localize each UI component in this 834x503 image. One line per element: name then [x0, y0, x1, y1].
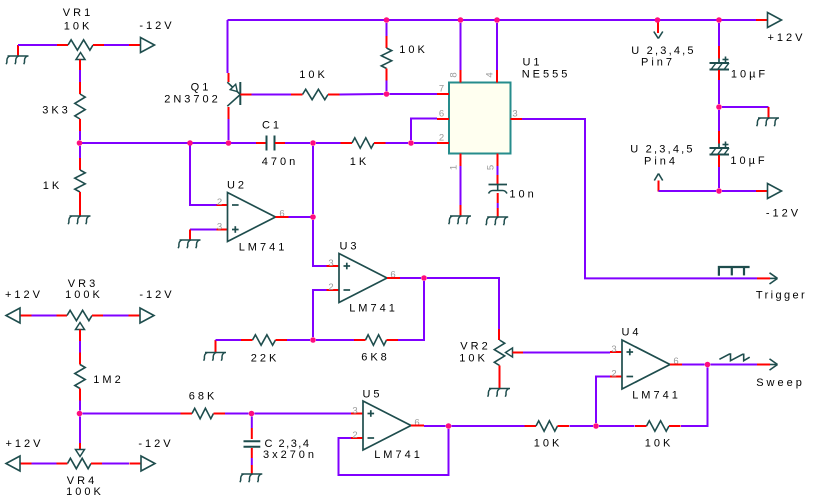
- wire 3K3 to bus: [79, 131, 81, 140]
- svg-text:U 2,3,4,5: U 2,3,4,5: [631, 45, 695, 57]
- power +12V (VR4): [6, 456, 32, 471]
- icon square wave: [719, 267, 750, 276]
- junction U2 out (313,217): [310, 214, 316, 220]
- wire 1K to ground: [79, 204, 81, 216]
- svg-text:Pin4: Pin4: [644, 156, 678, 168]
- svg-text:Pin7: Pin7: [641, 57, 675, 69]
- wire 68K to M: [225, 413, 249, 415]
- pin number U5-3: [352, 406, 360, 417]
- wire B down to U2 pin2: [190, 143, 217, 205]
- pin number 4: [485, 69, 496, 77]
- resistor 22K: [241, 335, 287, 345]
- svg-text:10K: 10K: [459, 353, 488, 365]
- pin 2 lead: [437, 142, 449, 144]
- pin number 5: [486, 162, 497, 170]
- svg-text:LM741: LM741: [239, 242, 288, 254]
- junction U4 out (707.5,364.5): [705, 362, 711, 368]
- capacitor C 10uF (bottom): [710, 142, 730, 155]
- wire U3 out: [400, 277, 421, 279]
- capacitor 10uF top lead: [718, 46, 720, 59]
- potentiometer VR1 10K: [57, 40, 104, 60]
- pin number 3: [512, 109, 520, 120]
- pin number 8: [449, 69, 460, 77]
- label 10K pullup: [399, 44, 428, 56]
- junction node C (228.5,143): [226, 140, 232, 146]
- junction top bus cap: [716, 17, 722, 23]
- label C1 value: [262, 156, 298, 168]
- label VR4: [67, 475, 97, 487]
- op-amp U3 pin3 lead: [327, 265, 340, 267]
- junction node M (251.5,413.5): [249, 411, 255, 417]
- wire 6K8 to U3out corner: [398, 281, 424, 340]
- label U3: [339, 241, 359, 253]
- svg-text:3: 3: [217, 222, 225, 233]
- power -12V (VR4): [130, 456, 156, 471]
- wire 1K to E: [386, 142, 409, 144]
- wire pin8 up: [460, 23, 462, 70]
- wire VR3 wiper red: [79, 330, 81, 342]
- capacitor 10uF2 bot lead: [718, 155, 720, 167]
- pin number U4-2: [611, 369, 619, 380]
- op-amp U3 LM741: [339, 254, 387, 303]
- junction node E (411,143): [408, 140, 414, 146]
- wire bus to 10K pullup: [386, 23, 388, 36]
- op-amp U4 pin3 lead: [610, 351, 622, 353]
- arrow U2345 pin7: [654, 22, 663, 39]
- resistor 10K (base): [291, 89, 340, 99]
- label 22K: [251, 353, 280, 365]
- label 10K base: [299, 69, 328, 81]
- resistor 1K (to ground): [75, 158, 85, 204]
- label VR4 value: [66, 486, 104, 498]
- label 1K ground: [43, 180, 62, 192]
- junction top bus 10K: [384, 17, 390, 23]
- svg-text:3: 3: [611, 344, 619, 355]
- wire C234 to ground b: [251, 465, 253, 474]
- capacitor C 10uF (top): [710, 57, 730, 70]
- label U2: [227, 180, 247, 192]
- label C1: [262, 120, 282, 132]
- wire VR2 top lead: [498, 329, 500, 340]
- label 68K: [189, 391, 218, 403]
- svg-text:U2: U2: [227, 180, 247, 192]
- pin 4 lead: [496, 70, 498, 83]
- potentiometer VR2 10K: [494, 340, 523, 377]
- wire top bus: [228, 19, 757, 21]
- label U2345 pin7: [631, 45, 695, 57]
- pin number 6: [439, 109, 447, 120]
- label +12V VR3: [5, 289, 43, 301]
- IC U1 NE555 body: [449, 83, 511, 154]
- capacitor 10n: [489, 185, 508, 194]
- svg-text:Sweep: Sweep: [756, 377, 805, 389]
- label -12V VR4: [138, 438, 173, 450]
- wire VR3 to -12V: [103, 315, 129, 317]
- pin number 1: [449, 162, 460, 170]
- wire U4 pin2 down: [596, 377, 610, 424]
- wire VR2 bottom gap: [499, 377, 501, 381]
- wire 10Ks mid: [599, 425, 635, 427]
- ground G7 (22K): [204, 353, 226, 361]
- label +12V top: [768, 32, 806, 44]
- wire A down: [79, 146, 81, 158]
- pin number U2-6: [279, 209, 287, 220]
- op-amp U2 pin2 lead: [217, 204, 228, 206]
- wire pin4 up: [496, 23, 498, 70]
- label U2 type: [239, 242, 288, 254]
- wire VR4 left: [32, 463, 57, 465]
- wire U4 out: [682, 364, 705, 366]
- svg-text:NE555: NE555: [522, 69, 571, 81]
- label VR1: [63, 7, 93, 19]
- pin 5 lead: [497, 154, 499, 167]
- resistor 6K8: [354, 335, 398, 345]
- wire U5 out: [424, 425, 446, 427]
- svg-text:C1: C1: [262, 120, 282, 132]
- wire U2 out to D2: [289, 216, 314, 218]
- label Q1: [191, 82, 212, 94]
- power +12V (VR3): [6, 308, 32, 323]
- wire bus B-C: [190, 142, 229, 144]
- label Q1 type: [164, 94, 221, 106]
- label VR3 value: [65, 289, 103, 301]
- op-amp U5 LM741: [363, 401, 411, 450]
- wire 10K to F: [340, 93, 384, 96]
- svg-text:U4: U4: [621, 327, 641, 339]
- svg-text:U1: U1: [522, 57, 542, 69]
- label U3 type: [349, 303, 398, 315]
- wire top bus corner down to Q1: [227, 20, 229, 73]
- ground G9 (C234): [240, 474, 262, 482]
- wire rail to -12V: [722, 190, 756, 192]
- svg-text:U 2,3,4,5: U 2,3,4,5: [630, 144, 694, 156]
- ground G3 (U2 pin3): [178, 240, 200, 248]
- label 1M2: [93, 374, 123, 386]
- op-amp U5 output lead: [411, 425, 424, 427]
- op-amp U4 output lead: [670, 364, 682, 366]
- pin number U2-2: [217, 197, 225, 208]
- pin number 2: [439, 133, 447, 144]
- wire 10K1 to U5out: [452, 425, 525, 427]
- wire 10n to ground2: [497, 208, 499, 217]
- svg-text:2: 2: [352, 430, 360, 441]
- junction top bus pin8: [458, 17, 464, 23]
- pin number U3-2: [328, 282, 336, 293]
- wire C234 gap: [251, 458, 253, 465]
- wire VR4 wiper lead: [79, 443, 81, 450]
- wire mid to ground corner: [722, 106, 769, 108]
- label VR3: [68, 278, 98, 290]
- op-amp U2 pin3 lead: [217, 229, 228, 231]
- wire VR1 wiper down: [79, 60, 81, 71]
- wire U4 out to sweep: [711, 364, 758, 366]
- wire U2 pin3 ground lead: [189, 230, 191, 241]
- wire G7 to 22K: [216, 339, 242, 341]
- wire M to U5 pin3: [255, 413, 352, 415]
- op-amp U3 output lead: [387, 277, 400, 279]
- transistor Q1 2N3702: [227, 82, 251, 106]
- label 3K3: [42, 105, 71, 117]
- pin number U4-6: [673, 356, 681, 367]
- wire U2 pin3: [190, 229, 217, 231]
- label 1K series: [350, 156, 369, 168]
- svg-text:10K: 10K: [534, 438, 563, 450]
- svg-text:Q1: Q1: [191, 82, 212, 94]
- wire VR4 right: [102, 463, 129, 465]
- label 10K out1: [534, 438, 563, 450]
- wire Q1 emitter lead: [228, 73, 230, 82]
- op-amp U3 pin2 lead: [327, 289, 340, 291]
- pin number U5-6: [414, 418, 422, 429]
- svg-text:1K: 1K: [350, 156, 369, 168]
- resistor 10K out2: [635, 421, 681, 431]
- wire G7 lead: [215, 340, 217, 353]
- icon sawtooth: [719, 354, 749, 361]
- svg-text:-12V: -12V: [139, 20, 174, 32]
- pin number U2-3: [217, 222, 225, 233]
- svg-text:10K: 10K: [399, 44, 428, 56]
- wire collector to bus: [228, 119, 230, 140]
- svg-text:1K: 1K: [43, 180, 62, 192]
- wire M down: [251, 417, 253, 429]
- power -12V (VR3): [129, 308, 155, 323]
- label U1: [522, 57, 542, 69]
- pin number U3-3: [328, 258, 336, 269]
- junction node K (79.5,413.5): [77, 411, 83, 417]
- capacitor C2,3,4: [244, 441, 261, 447]
- label U5: [362, 389, 382, 401]
- resistor 10K out1: [525, 421, 570, 431]
- label U5 type: [374, 449, 423, 461]
- wire mid down: [718, 110, 720, 131]
- junction node B (190,143): [187, 140, 193, 146]
- pin number 7: [439, 84, 447, 95]
- junction U3 out (424,278): [421, 275, 427, 281]
- svg-text:2: 2: [611, 369, 619, 380]
- wire VR1 to -12V arrow: [104, 44, 129, 46]
- wire U3 pin2 to feedback: [313, 290, 327, 337]
- potentiometer VR3 100K: [32, 310, 104, 329]
- svg-text:3: 3: [352, 406, 360, 417]
- junction U3 fb (313,340): [310, 337, 316, 343]
- pin number U5-2: [352, 430, 360, 441]
- label U2345 pin4: [630, 144, 694, 156]
- junction U4 fb mid (596,426): [593, 423, 599, 429]
- svg-text:6: 6: [439, 109, 447, 120]
- wire F to 555 pin7: [390, 93, 438, 95]
- svg-text:2: 2: [328, 282, 336, 293]
- junction node D (313,143): [310, 140, 316, 146]
- wire pin5 purple: [497, 166, 499, 175]
- label 10uF bottom: [730, 155, 767, 167]
- label 10n: [509, 189, 536, 201]
- svg-text:10K: 10K: [299, 69, 328, 81]
- wire U4 fb right: [681, 368, 708, 427]
- svg-text:8: 8: [449, 69, 460, 77]
- resistor 3K3: [75, 82, 85, 131]
- wire Q1 base to 10K: [252, 94, 292, 96]
- arrow Sweep out: [757, 359, 778, 370]
- wire wiper purple: [79, 70, 81, 82]
- ground G2 (below 1K): [68, 216, 90, 224]
- ground G6 (caps mid): [757, 118, 779, 126]
- svg-text:100K: 100K: [65, 289, 103, 301]
- capacitor 10uF2 top lead: [718, 131, 720, 144]
- wire mid to 10K1: [570, 425, 594, 427]
- svg-text:3: 3: [328, 258, 336, 269]
- wire C1 to D: [285, 142, 310, 144]
- svg-text:-12V: -12V: [139, 289, 174, 301]
- svg-text:+12V: +12V: [6, 438, 44, 450]
- wire K down: [79, 417, 81, 444]
- wire G1 to VR1: [18, 44, 57, 46]
- wire 22K to J: [287, 339, 310, 341]
- label Pin4: [644, 156, 678, 168]
- wire pin4 rail: [659, 190, 717, 192]
- svg-text:2: 2: [217, 197, 225, 208]
- wire 10K pullup to F: [386, 81, 388, 92]
- wire C234 to ground a: [251, 448, 253, 458]
- label U4: [621, 327, 641, 339]
- wire VR2 wiper to U4: [523, 352, 610, 354]
- capacitor C1 470n: [256, 136, 285, 151]
- svg-text:-12V: -12V: [766, 208, 801, 220]
- wire 10n to ground1: [497, 193, 499, 203]
- power +12V (top): [756, 13, 782, 28]
- resistor 1M2: [75, 353, 85, 401]
- wire caps mid: [718, 80, 720, 104]
- wire cap2 to rail: [718, 167, 720, 188]
- pin number U3-6: [390, 270, 398, 281]
- junction caps mid: [716, 104, 722, 110]
- label 10K out2: [645, 438, 674, 450]
- label Sweep: [756, 377, 805, 389]
- resistor 1K (series): [341, 138, 386, 148]
- svg-text:Trigger: Trigger: [756, 290, 807, 302]
- power -12V (rail): [756, 184, 782, 199]
- svg-text:10K: 10K: [645, 438, 674, 450]
- svg-text:100K: 100K: [66, 486, 104, 498]
- wire 555 pin2-6 branch: [411, 119, 437, 141]
- svg-text:6K8: 6K8: [361, 352, 390, 364]
- junction node A (79.5,143): [77, 140, 83, 146]
- label U1 type: [522, 69, 571, 81]
- label -12V (VR1): [139, 20, 174, 32]
- op-amp U4 pin2 lead: [610, 376, 622, 378]
- svg-text:VR1: VR1: [63, 7, 93, 19]
- svg-text:1M2: 1M2: [93, 374, 123, 386]
- wire pin1 down: [460, 166, 462, 205]
- wire K to 68K: [83, 413, 181, 415]
- arrow U2345 pin4: [654, 174, 662, 192]
- ground G4 (555 pin1): [449, 216, 471, 224]
- label 10uF top: [731, 69, 768, 81]
- svg-text:LM741: LM741: [374, 449, 423, 461]
- wire VR2 ground lead: [499, 381, 501, 389]
- svg-text:VR2: VR2: [460, 341, 490, 353]
- svg-text:10µF: 10µF: [730, 155, 767, 167]
- capacitor 10n lead: [497, 175, 499, 184]
- label Pin7: [641, 57, 675, 69]
- svg-text:1: 1: [449, 162, 460, 170]
- wire U2out down to U3 pin3: [313, 220, 327, 266]
- svg-text:2N3702: 2N3702: [164, 94, 221, 106]
- junction -12V rail: [716, 188, 722, 194]
- pin number U4-3: [611, 344, 619, 355]
- wire ground lead right: [768, 107, 770, 118]
- junction top bus pin7arrow: [655, 17, 661, 23]
- svg-text:LM741: LM741: [349, 303, 398, 315]
- power -12V (VR1): [129, 38, 155, 53]
- potentiometer VR4 100K: [57, 450, 103, 469]
- label C234: [265, 438, 311, 450]
- label VR2: [460, 341, 490, 353]
- svg-text:68K: 68K: [189, 391, 218, 403]
- svg-text:10n: 10n: [509, 189, 536, 201]
- wire 10n gap: [497, 203, 499, 208]
- svg-text:7: 7: [439, 84, 447, 95]
- wire D to 1K: [316, 142, 341, 144]
- svg-text:3x270n: 3x270n: [263, 449, 317, 461]
- label VR2 value: [459, 353, 488, 365]
- label -12V rail: [766, 208, 801, 220]
- label U4 type: [632, 390, 681, 402]
- wire bus to C2 top: [718, 23, 720, 46]
- op-amp U2 LM741: [228, 193, 276, 242]
- wire 1M2 to K: [79, 401, 81, 411]
- op-amp U4 LM741: [622, 340, 670, 389]
- svg-text:+12V: +12V: [5, 289, 43, 301]
- wire E to 555 pin2: [414, 142, 437, 144]
- junction node F (386.5,94): [384, 91, 390, 97]
- pin 8 lead: [460, 70, 462, 83]
- svg-text:LM741: LM741: [632, 390, 681, 402]
- pin 7 lead: [437, 93, 449, 95]
- label VR1 value: [64, 21, 93, 33]
- svg-text:470n: 470n: [262, 156, 298, 168]
- svg-text:2: 2: [439, 133, 447, 144]
- label -12V VR3: [139, 289, 174, 301]
- svg-text:3: 3: [512, 109, 520, 120]
- wire D down to U3 pin3: [312, 146, 314, 214]
- wire U5 pin2 feedback: [339, 429, 449, 475]
- svg-text:10µF: 10µF: [731, 69, 768, 81]
- pin 6 lead: [437, 118, 449, 120]
- wire pin1 ground lead: [460, 205, 462, 216]
- junction top bus pin4: [494, 17, 500, 23]
- label Trigger: [756, 290, 807, 302]
- svg-text:5: 5: [486, 162, 497, 170]
- arrow Trigger out: [757, 273, 778, 284]
- pin 3 lead: [511, 118, 523, 120]
- svg-text:10K: 10K: [64, 21, 93, 33]
- op-amp U2 output lead: [276, 216, 289, 218]
- label +12V VR4: [6, 438, 44, 450]
- wire VR3 wiper purple: [79, 341, 81, 353]
- op-amp U5 pin3 lead: [351, 413, 363, 415]
- svg-text:-12V: -12V: [138, 438, 173, 450]
- wire pin3 to trigger: [522, 119, 757, 278]
- wire bus C to C1: [229, 142, 257, 144]
- svg-text:4: 4: [485, 69, 496, 77]
- ground G5 (10n): [486, 217, 508, 225]
- junction U5 out (448.5,426): [446, 423, 452, 429]
- wire J to 6K8: [316, 339, 354, 341]
- svg-text:+12V: +12V: [768, 32, 806, 44]
- svg-text:U3: U3: [339, 241, 359, 253]
- svg-text:6: 6: [414, 418, 422, 429]
- resistor 10K pullup: [381, 36, 391, 81]
